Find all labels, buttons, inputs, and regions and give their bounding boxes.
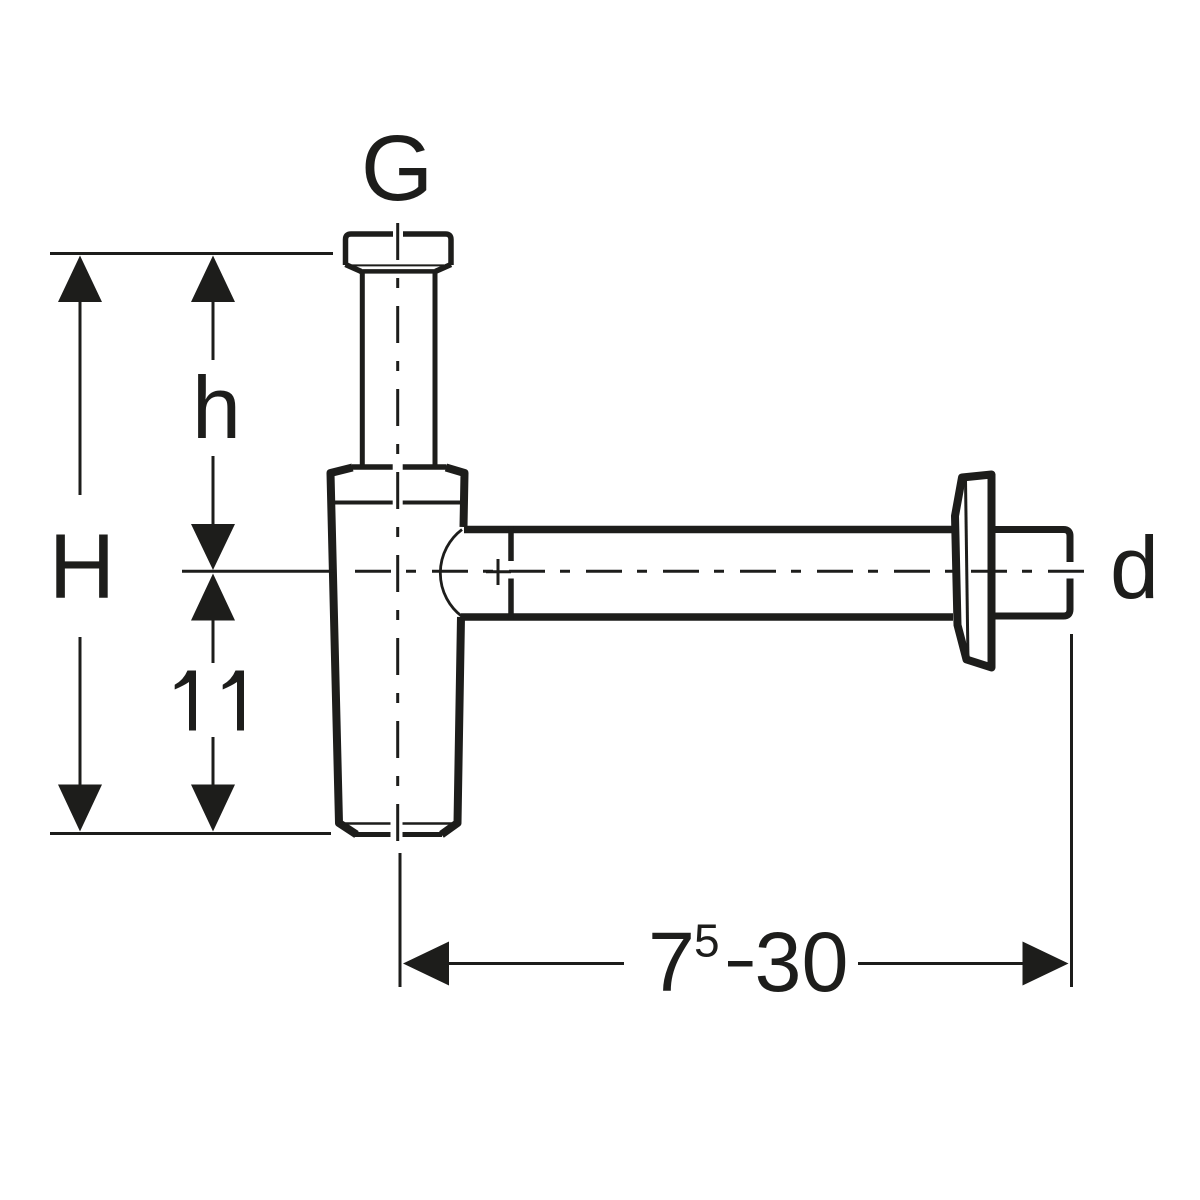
body bottom rim line: [339, 822, 456, 825]
extension line axis: [182, 570, 335, 573]
dimension h: [212, 302, 215, 524]
wall flange: [955, 475, 992, 668]
label 11: [175, 671, 244, 731]
trap body: [331, 468, 465, 835]
vertical centerline: [396, 223, 399, 842]
svg-text:H: H: [49, 516, 115, 618]
inlet pipe: [362, 273, 435, 466]
svg-text:d: d: [1110, 518, 1159, 617]
inlet nut: [346, 234, 452, 271]
svg-text:G: G: [361, 116, 433, 220]
dimension 11: [212, 620, 215, 785]
outlet pipe: [440, 526, 1070, 620]
horizontal centerline: [355, 570, 1085, 573]
extension line bottom: [50, 832, 331, 835]
dimension H: [79, 300, 82, 786]
dimension 75-30: [400, 634, 1072, 987]
body bottom edge: [355, 832, 442, 837]
svg-text:7: 7: [648, 915, 695, 1009]
body collar: [333, 467, 464, 503]
svg-text:5: 5: [694, 915, 720, 967]
svg-text:30: 30: [755, 915, 849, 1009]
centre mark: [486, 559, 511, 585]
svg-text:h: h: [192, 358, 241, 457]
extension line top: [50, 252, 333, 255]
